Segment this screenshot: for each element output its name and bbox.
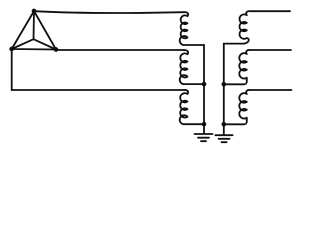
junction: primary coil C bottom to neutral [202, 122, 207, 127]
primary winding coil B (left column middle) [180, 50, 204, 84]
node dot: delta top vertex (phase A) [32, 9, 37, 14]
ground: primary neutral earth [195, 134, 213, 141]
primary winding coil C (left column bottom) [180, 90, 204, 124]
secondary winding coil C (right column bottom) [224, 90, 292, 124]
wire: secondary neutral bus [223, 44, 225, 135]
junction: secondary coil C bottom to neutral [222, 122, 227, 127]
junction: secondary coil B bottom to neutral [222, 82, 227, 87]
wire: primary neutral bus [203, 45, 205, 133]
secondary winding coil B (right column middle) [224, 50, 291, 84]
primary winding coil A (left column top) [180, 12, 204, 45]
wire: phase B line to primary [56, 49, 184, 51]
wire: phase C line to primary [12, 89, 184, 91]
wire: phase A line to primary [34, 11, 184, 13]
delta-connected source winding [12, 11, 56, 50]
secondary winding coil A (right column top) [224, 11, 290, 43]
ground: secondary neutral earth [215, 135, 232, 142]
junction: primary coil B bottom to neutral [202, 82, 207, 87]
node dot: delta bottom-left vertex (phase C) [9, 47, 14, 52]
node dot: delta bottom-right vertex (phase B) [54, 47, 59, 52]
wire: phase C drop from delta [11, 49, 13, 90]
